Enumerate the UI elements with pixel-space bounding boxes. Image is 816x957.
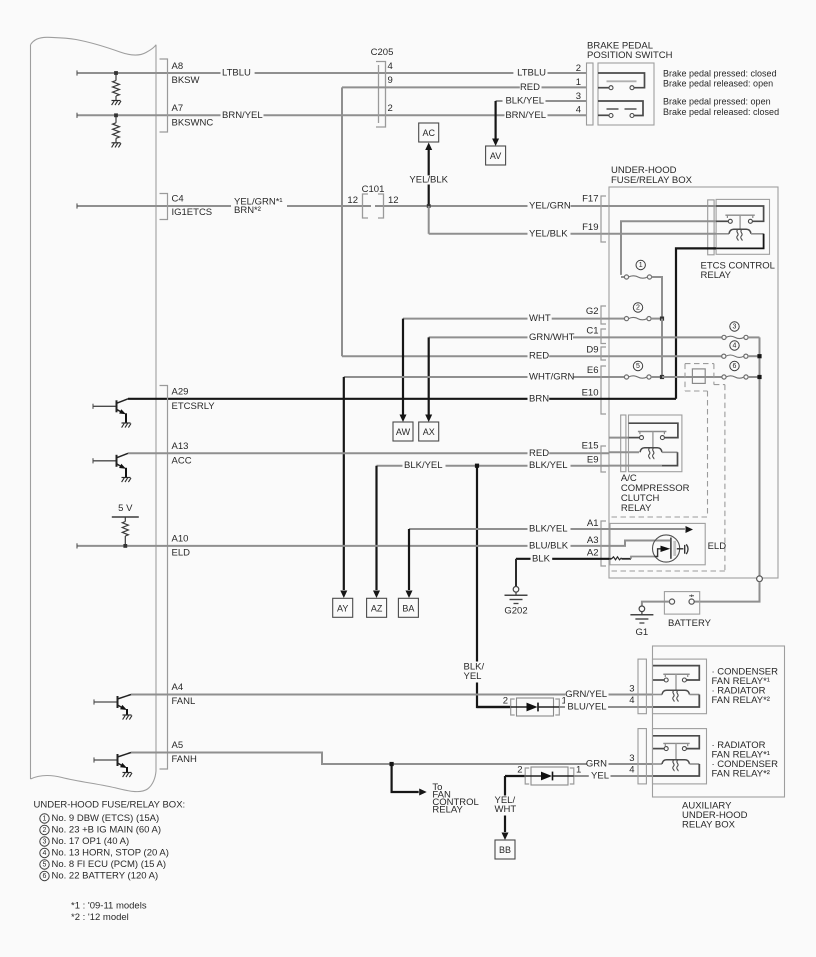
aux relay 1 pin 4 [629,695,634,706]
svg-text:BLU/YEL: BLU/YEL [567,702,606,713]
switch note line 3 [663,97,771,107]
arrow into BA [406,591,413,599]
svg-text:LTBLU: LTBLU [222,68,251,79]
wire BLU/YEL to relay pin4 [559,706,652,708]
connector box BA [398,598,418,617]
svg-text:FAN RELAY*²: FAN RELAY*² [712,695,770,706]
wire BLK/YEL drop to AZ [375,466,377,590]
pin label C4 [172,194,184,205]
svg-text:Brake pedal pressed: open: Brake pedal pressed: open [663,97,771,107]
legend fuse 1 [40,813,159,824]
svg-text:A7: A7 [172,103,184,114]
switch 1 armature (closed shown) [607,80,637,82]
diode D2 [525,767,574,785]
arrow into AZ [373,591,380,599]
arrow into AV [492,139,499,147]
arrow into AX [425,415,432,423]
wire BLK/YEL E9 row [377,465,610,467]
svg-text:BATTERY: BATTERY [668,618,712,629]
label fan relay 2 [712,740,779,780]
label BATTERY [668,618,712,629]
label ELD [708,541,727,552]
svg-text:BKSW: BKSW [172,75,200,86]
svg-text:4: 4 [629,764,634,775]
svg-text:IG1ETCS: IG1ETCS [172,207,213,218]
legend note *1 [71,901,147,912]
svg-text:No. 8 FI ECU (PCM) (15 A): No. 8 FI ECU (PCM) (15 A) [52,859,167,870]
pull-up resistor R-A7 [113,115,120,142]
A/C relay connector bracket [621,415,626,472]
junction bus/fuse5 [660,375,664,379]
wire YEL/BLK branch up to AC [428,150,430,206]
svg-text:1: 1 [43,815,47,822]
svg-text:A29: A29 [172,387,189,398]
5V reference supply [112,503,139,546]
pin label E15 [582,441,599,452]
wire labels at switch [503,68,548,121]
wire WHT drop to AW [402,319,404,415]
wire fuse6 row [662,376,722,378]
wire label BRN/YEL (left) [221,110,264,121]
svg-text:4: 4 [576,105,581,116]
aux relay 1 pin 3 [629,684,634,695]
ELD MOSFET internals [655,538,689,559]
legend title [34,800,186,811]
diode D1 [511,698,560,716]
switch pin number 4 [576,105,581,116]
pin label E9 [587,455,599,466]
junction dot A8/resistor [114,71,118,75]
under-hood fuse/relay box [609,187,778,578]
ELD unit box [610,523,705,564]
wire label YEL/BLK [528,228,571,239]
wire GRN/WHT drop to AX [428,337,430,414]
wire BRN E10 row (black) [128,398,676,400]
label To FAN CONTROL RELAY [432,782,478,816]
svg-text:C101: C101 [362,184,385,195]
diode D1 feed [477,706,511,708]
svg-text:2: 2 [636,304,640,311]
svg-text:E6: E6 [587,365,599,376]
pin label F19 [582,222,598,233]
label BRAKE PEDAL POSITION SWITCH [587,41,673,62]
label fan relay 1 [712,667,779,707]
pin label ETCSRLY [172,401,216,412]
fuse 4 No.13 HORN STOP [722,354,760,358]
svg-text:FUSE/RELAY BOX: FUSE/RELAY BOX [611,175,693,186]
wire A5 FANH row [131,753,653,765]
wire BLK/YEL drop to AV [495,101,497,139]
connector box AZ [367,598,387,617]
svg-text:BLU/BLK: BLU/BLK [529,540,569,551]
svg-text:2: 2 [503,696,508,707]
svg-text:1: 1 [576,77,581,88]
pin label A7 [172,103,184,114]
transistor Q2 (ACC driver) [93,453,131,482]
svg-text:AZ: AZ [371,603,383,613]
svg-text:UNDER-HOOD FUSE/RELAY BOX:: UNDER-HOOD FUSE/RELAY BOX: [34,800,186,811]
svg-text:6: 6 [733,363,737,370]
svg-text:C4: C4 [172,194,184,205]
pin label A1 [587,518,599,529]
transistor Q4 (FANH driver) [94,753,132,778]
ground G1 [630,606,653,638]
svg-text:BLK: BLK [532,553,551,564]
svg-text:6: 6 [43,873,47,880]
svg-text:Brake pedal released: closed: Brake pedal released: closed [663,107,779,117]
svg-text:3: 3 [629,753,634,764]
wire BLU/BLK A3 row [77,543,609,548]
switch 1 (pins 2-1) wiring [598,73,645,90]
pin label ACC [172,456,192,467]
wire BLK/YEL long vertical to fans [477,466,511,707]
svg-text:A13: A13 [172,441,189,452]
ELD sense arrow (A1 row inside) [609,526,693,533]
svg-text:RED: RED [529,448,549,459]
switch pin number 1 [576,77,581,88]
brake pedal position switch box [598,63,654,125]
wire RED E15 row [128,452,609,454]
svg-text:2: 2 [388,103,393,114]
junction fuse4/main vertical [757,354,761,358]
fuse 2 +B IG MAIN [609,317,662,321]
svg-text:*1 : '09-11 models: *1 : '09-11 models [71,901,147,912]
pin label IG1ETCS [172,207,213,218]
ECM connector bracket A group [160,386,168,770]
svg-text:A10: A10 [172,534,189,545]
svg-text:RELAY: RELAY [701,270,732,281]
svg-text:YEL/BLK: YEL/BLK [529,228,568,239]
arrow into AC [425,143,432,151]
wire BRN black vertical (coil return) [676,248,716,398]
ECM/PCM module box (torn-edge outline) [31,37,157,791]
svg-text:WHT/GRN: WHT/GRN [529,372,575,383]
battery [664,592,699,615]
pin label A29 [172,387,189,398]
pull-up resistor R-A8 [113,73,120,100]
svg-text:BRN*²: BRN*² [234,205,261,216]
svg-text:G202: G202 [504,606,527,617]
wire RED C205-9 to D9 (vertical) [341,87,343,356]
svg-text:A2: A2 [587,548,599,559]
diode D2 pin 1 [576,765,581,776]
svg-text:No. 22 BATTERY (120 A): No. 22 BATTERY (120 A) [52,871,159,882]
connector box AX [419,422,439,441]
legend fuse 6 [40,871,158,882]
wire label BLK/YEL (mid) [403,460,446,471]
svg-text:3: 3 [629,684,634,695]
wire GRN/WHT C1 row [429,336,609,338]
legend fuse 3 [40,836,129,847]
wire A8 BKSW row (LTBLU) [77,70,586,75]
svg-text:RELAY: RELAY [432,805,463,816]
fusible-link square [692,369,705,384]
svg-text:A8: A8 [172,61,184,72]
legend note *2 [71,912,129,923]
svg-text:E9: E9 [587,455,599,466]
svg-text:BLK/YEL: BLK/YEL [529,460,568,471]
pin label C1 [586,326,598,337]
wire to fan control relay [392,764,427,796]
pin label D9 [586,345,598,356]
svg-text:GRN/YEL: GRN/YEL [565,689,607,700]
pin label A13 [172,441,189,452]
svg-text:BB: BB [499,845,511,855]
aux relay 1 connector bracket [638,659,646,714]
wire RED pin1 row [342,86,586,88]
wire A7 BKSWNC row (BRN/YEL) [77,113,586,118]
wire battery feed [694,582,759,602]
svg-text:RED: RED [529,351,549,362]
wire label GRN/YEL [565,689,608,700]
svg-text:ACC: ACC [172,456,192,467]
wire C4 IG1ETCS row [77,203,609,208]
label ETCS CONTROL RELAY [701,261,775,282]
wire D9 row to fuse4 [609,355,722,357]
svg-text:ELD: ELD [708,541,727,552]
ETCS control relay U1 [716,199,769,254]
svg-text:4: 4 [43,850,47,857]
radiator/condenser fan relay K2 [653,729,707,784]
switch note line 1 [663,69,777,79]
wire A4 FANL row [131,694,653,696]
wire C1 row to fuse3 [609,336,722,338]
wire label YEL/GRN*1 / BRN*2 [231,197,287,217]
pin bracket E6/E10 [601,366,606,414]
svg-text:C205: C205 [371,47,394,58]
fuse 5 number [633,361,642,370]
svg-text:12: 12 [347,195,358,206]
svg-text:WHT: WHT [495,804,517,815]
svg-text:BLK/YEL: BLK/YEL [404,460,443,471]
aux relay 2 pin 4 [629,764,634,775]
svg-text:A5: A5 [172,740,184,751]
svg-text:Brake pedal released: open: Brake pedal released: open [663,79,773,89]
svg-text:BA: BA [402,603,414,613]
svg-text:No. 23 +B IG MAIN (60 A): No. 23 +B IG MAIN (60 A) [52,825,162,836]
auxiliary under-hood relay box [653,646,785,797]
A/C relay contact stub [609,437,629,439]
svg-text:BLK/YEL: BLK/YEL [505,96,544,107]
wire label LTBLU (left) [221,68,255,79]
svg-text:GRN: GRN [586,759,607,770]
wire label BLK/YEL (A1) [528,524,571,535]
fuse 1 No.9 DBW(ETCS) [621,275,652,279]
fuse 3 No.17 OP1 [722,335,760,339]
svg-text:F17: F17 [582,194,598,205]
svg-text:2: 2 [517,765,522,776]
svg-text:ELD: ELD [172,548,191,559]
fuse 6 No.22 BATTERY [722,375,760,379]
ECM connector bracket A8/A7 [160,59,168,132]
wire label RED (D9) [528,351,550,362]
wire BLK/YEL pin3 row [496,100,586,102]
fuse 1 number [636,260,645,269]
wire label RED (E15) [528,448,550,459]
wire label YEL [589,771,611,782]
legend fuse 4 [40,848,169,859]
fuse 2 number [633,303,642,312]
label UNDER-HOOD FUSE/RELAY BOX [611,165,693,186]
svg-text:1: 1 [576,765,581,776]
svg-text:Brake pedal pressed: closed: Brake pedal pressed: closed [663,69,777,79]
svg-text:9: 9 [388,75,393,86]
pin label A10 [172,534,189,545]
svg-text:YEL/BLK: YEL/BLK [409,175,448,186]
wire label BLK [531,553,553,564]
aux relay 2 connector bracket [638,729,646,784]
svg-text:*2 : '12 model: *2 : '12 model [71,912,129,923]
svg-text:4: 4 [629,695,634,706]
svg-text:2: 2 [576,63,581,74]
svg-text:E15: E15 [582,441,599,452]
pin label E10 [582,388,599,399]
wire label BRN [528,393,550,404]
svg-text:YEL/GRN: YEL/GRN [529,201,571,212]
svg-text:3: 3 [43,838,47,845]
svg-text:AY: AY [337,603,348,613]
ground G202 [504,587,527,617]
wire label BLU/BLK [528,540,571,551]
wire BLK A2 row [516,558,609,560]
ECM connector bracket C4 [160,194,168,220]
svg-text:RELAY: RELAY [621,503,652,514]
wire BLK drop to G202 [515,559,517,587]
chassis ground under R-A7 [112,143,122,148]
pin label A5 [172,740,184,751]
aux relay 2 pin 3 [629,753,634,764]
wire RED D9 row [342,355,609,357]
svg-text:E10: E10 [582,388,599,399]
svg-text:YEL: YEL [464,671,482,682]
pin bracket A1/A3/A2 [601,521,606,566]
pin label G2 [586,306,599,317]
wire YEL/BLK branch down to F19 row [429,206,609,234]
transistor Q3 (FANL driver) [94,695,132,720]
svg-text:RED: RED [520,82,540,93]
svg-text:BRN/YEL: BRN/YEL [505,110,546,121]
svg-text:A3: A3 [587,535,599,546]
label AUXILIARY UNDER-HOOD RELAY BOX [682,801,748,831]
wire BLK/YEL A1 row [409,528,609,530]
svg-text:12: 12 [388,195,399,206]
pin label F17 [582,194,598,205]
pin bracket G2 [601,306,606,324]
pin bracket F connector [601,196,606,242]
svg-text:BKSWNC: BKSWNC [172,118,214,129]
pin label A2 [587,548,599,559]
svg-text:No. 13 HORN, STOP (20 A): No. 13 HORN, STOP (20 A) [52,848,169,859]
arrow into AW [400,415,407,423]
svg-text:3: 3 [733,323,737,330]
svg-text:WHT: WHT [529,313,551,324]
pin label FANH [172,754,197,765]
svg-text:4: 4 [733,342,737,349]
diode D2 pin 2 [517,765,522,776]
switch note line 4 [663,107,779,117]
wire BLK/YEL drop to BA [408,529,410,590]
arrow into BB [502,833,509,841]
pin label ELD [172,548,191,559]
svg-text:GRN/WHT: GRN/WHT [529,332,575,343]
svg-text:5: 5 [43,861,47,868]
wire label GRN [586,759,609,770]
svg-text:BLK/YEL: BLK/YEL [529,524,568,535]
junction FANH branch [390,762,394,766]
junction YEL/GRN / YEL/BLK [427,204,431,208]
svg-text:A4: A4 [172,682,184,693]
connector box AY [333,598,353,617]
switch note line 2 [663,79,773,89]
wire label GRN/WHT [528,332,575,343]
svg-text:C1: C1 [586,326,598,337]
svg-text:AC: AC [422,128,435,138]
wire label BLK/YEL (E9) [528,460,571,471]
switch 2 (pins 3-4) wiring [598,101,643,118]
svg-text:POSITION SWITCH: POSITION SWITCH [587,50,673,61]
junction dot A7/resistor [114,113,118,117]
legend fuse 5 [40,859,166,870]
svg-text:D9: D9 [586,345,598,356]
svg-text:5: 5 [636,363,640,370]
svg-text:FANH: FANH [172,754,197,765]
fuse 5 No.8 FI ECU [609,375,662,379]
junction 5V/A10 wire [123,544,127,548]
connector box BB [495,840,515,859]
ELD source wire (A2) with squiggle [609,557,655,560]
svg-text:No. 17 OP1 (40 A): No. 17 OP1 (40 A) [52,836,130,847]
dashed enclosure lines [612,364,725,571]
transistor Q1 (ETCSRLY driver) [93,399,131,428]
pin bracket D9 [601,347,606,360]
wire WHT/GRN drop to AY [343,377,345,590]
wire label WHT/GRN [528,372,575,383]
wire label YEL/GRN [528,201,571,212]
pin bracket E15/E9 [601,446,606,472]
pin bracket C1 [601,329,606,344]
switch pin number 2 [576,63,581,74]
wire relay contact to fuse1 [621,221,716,275]
A/C compressor clutch relay U2 [609,415,682,472]
connector C205 [371,47,394,127]
svg-text:BRN: BRN [529,393,549,404]
fuse 6 number [730,361,739,370]
svg-text:AX: AX [423,427,435,437]
pin label BKSW [172,75,200,86]
wire WHT G2 row [403,318,609,320]
connector C101 [347,184,398,218]
svg-text:A1: A1 [587,518,599,529]
svg-text:3: 3 [576,91,581,102]
pin label E6 [587,365,599,376]
pin label BKSWNC [172,118,214,129]
svg-text:FANL: FANL [172,696,196,707]
svg-text:No. 9 DBW (ETCS) (15A): No. 9 DBW (ETCS) (15A) [52,813,160,824]
wire bus fuse2 to fuse5 [661,319,663,377]
connector box AC [419,123,439,142]
wire label WHT [528,313,552,324]
pin label A8 [172,61,184,72]
fuse 3 number [730,322,739,331]
fuse 4 number [730,341,739,350]
junction fuse1-bus/fuse2 [660,317,664,321]
wire label BLK/ YEL (vertical) [461,662,485,683]
svg-text:4: 4 [388,61,393,72]
svg-text:YEL: YEL [591,771,609,782]
terminal circle at box bottom [757,576,763,582]
wire label BLU/YEL [565,702,608,713]
ELD gate wire (A3 row jog) [609,541,670,546]
